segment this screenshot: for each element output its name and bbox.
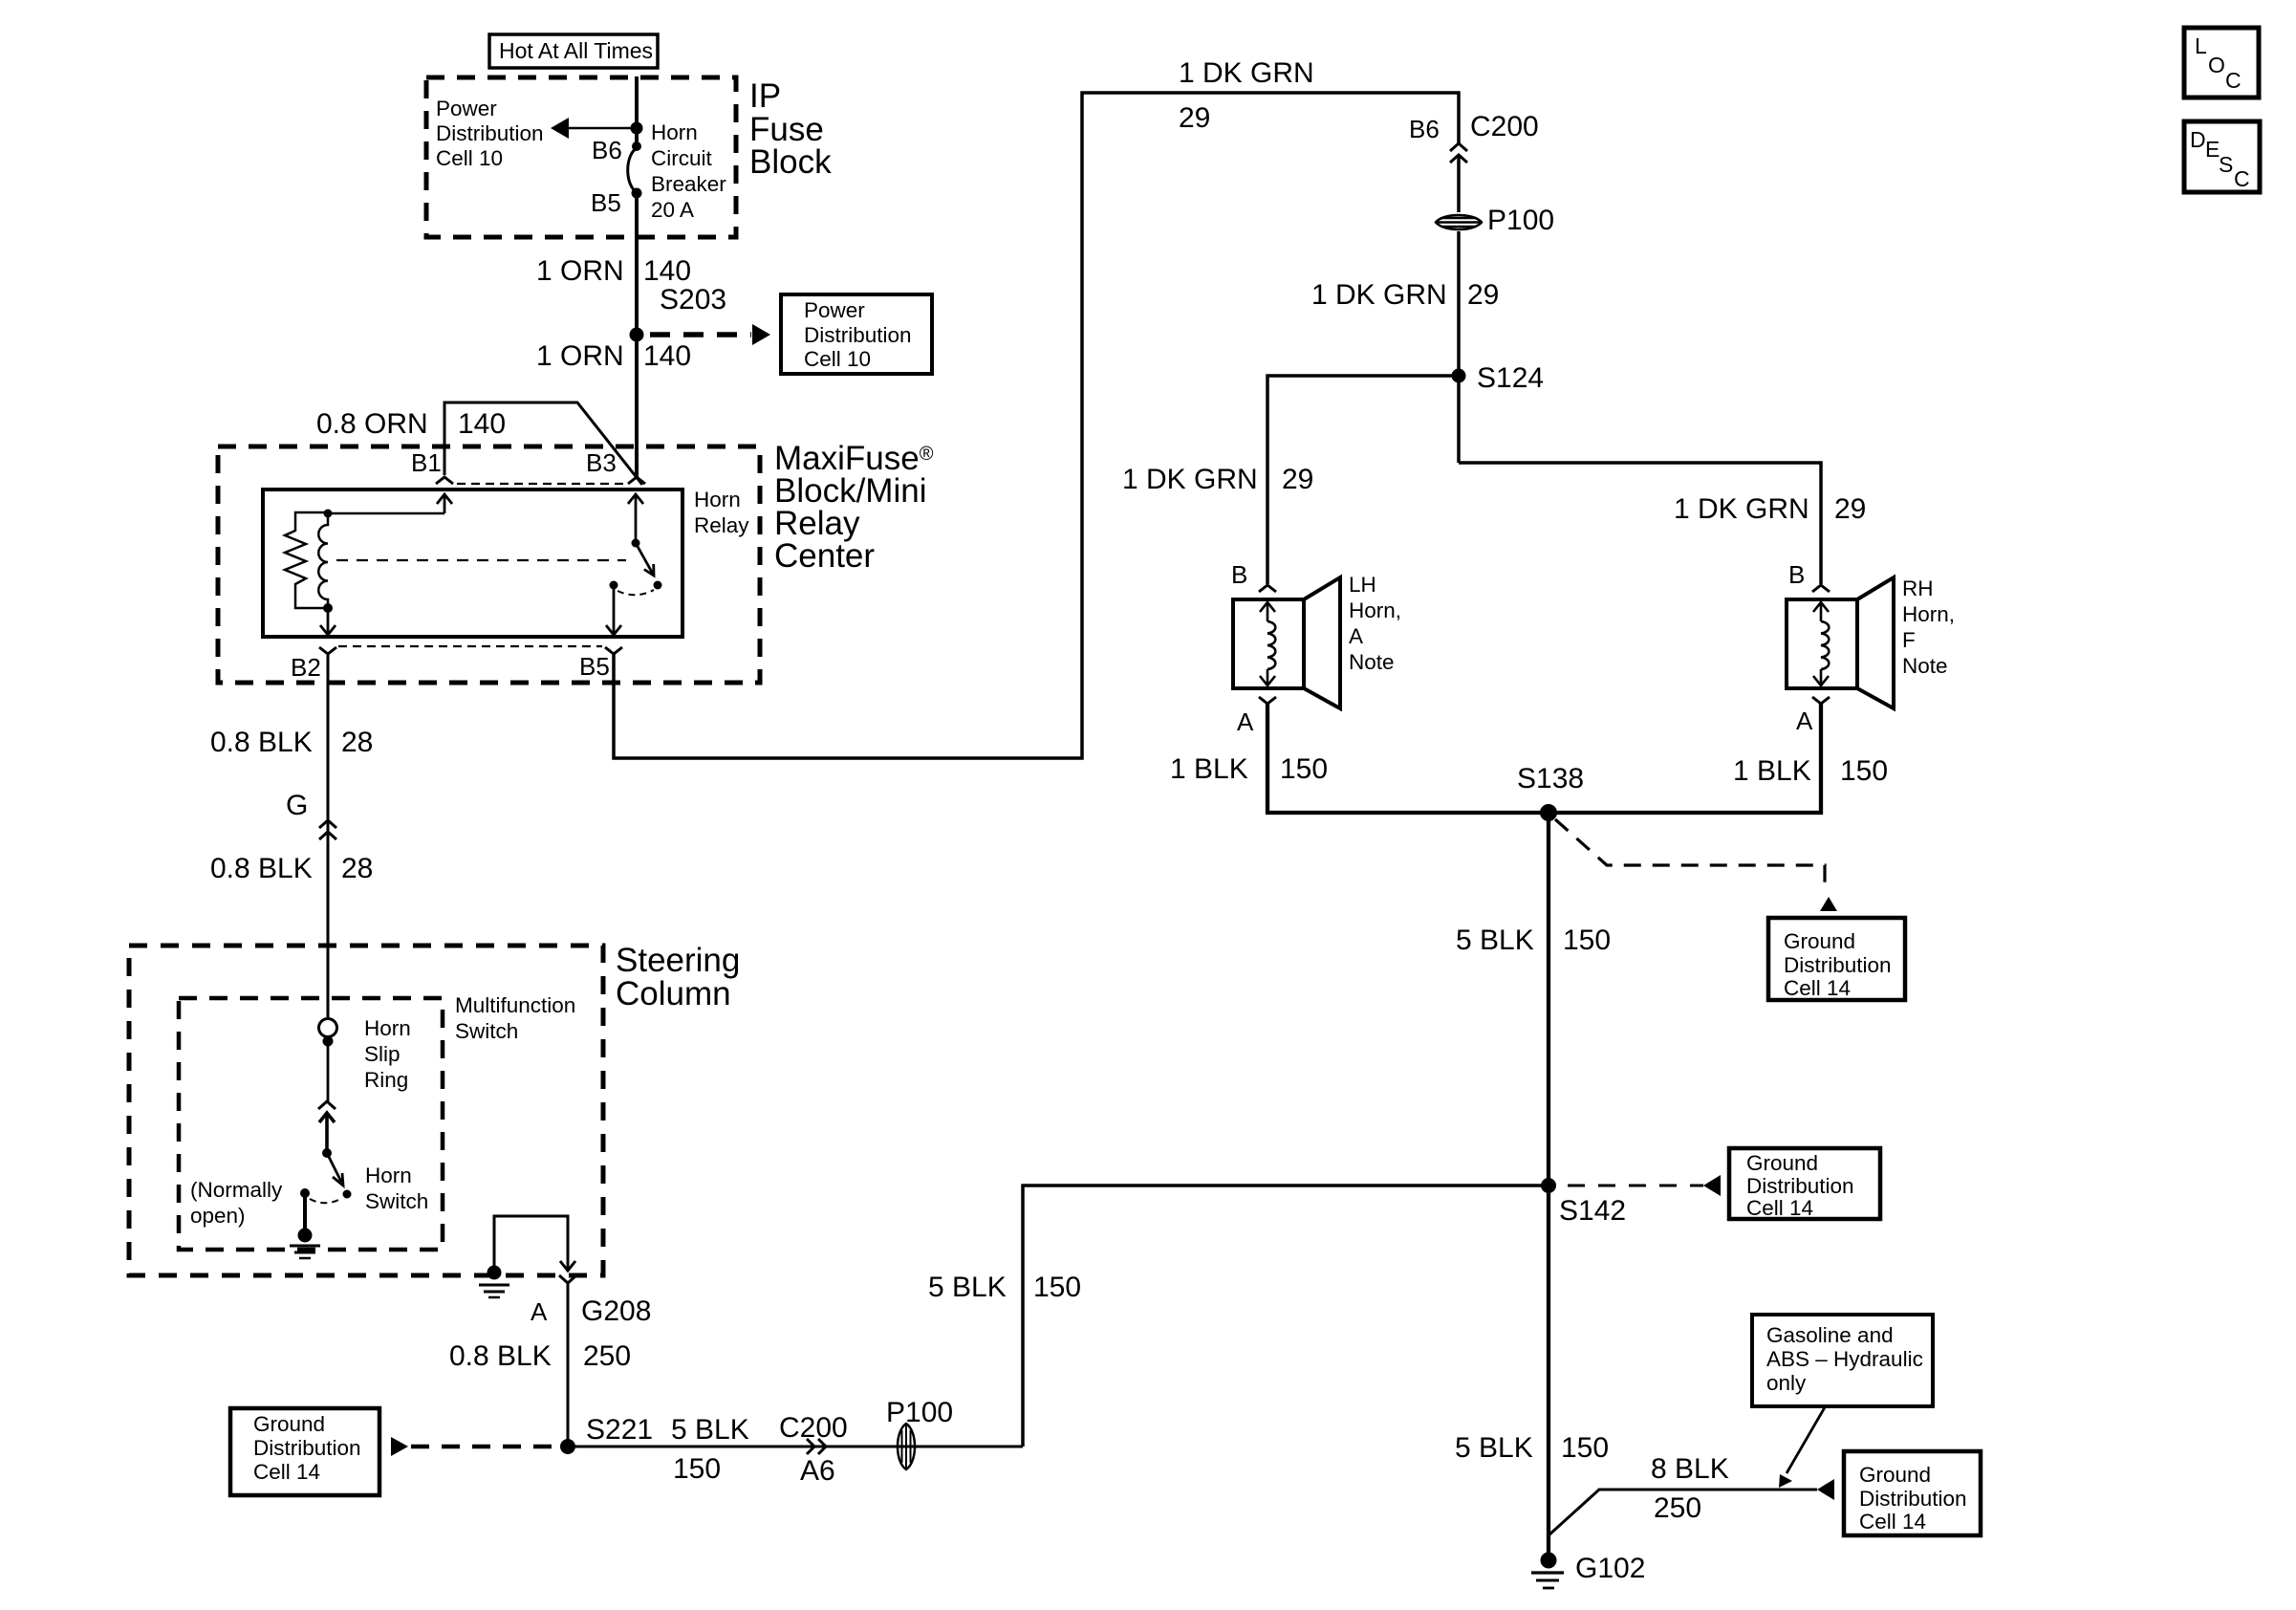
Horn Circuit Breaker 20 A label [651, 120, 726, 222]
svg-text:Cell 14: Cell 14 [1859, 1510, 1926, 1534]
svg-text:B3: B3 [586, 448, 617, 477]
wire label 8 BLK 250 [1651, 1453, 1729, 1524]
svg-text:Distribution: Distribution [1784, 953, 1892, 977]
svg-text:150: 150 [673, 1453, 721, 1485]
svg-text:Note: Note [1902, 654, 1948, 678]
relay switch pivot [632, 539, 640, 548]
horn switch blade with arrowhead [327, 1153, 343, 1186]
node: coil bottom junction [323, 603, 333, 613]
wire: arrow to Power Distribution Cell 10 [551, 118, 637, 139]
svg-text:Ground: Ground [1784, 929, 1855, 953]
svg-text:250: 250 [583, 1340, 631, 1372]
in-line chevron below slip ring [318, 1101, 336, 1109]
wire: P100 to S124 [1457, 231, 1461, 463]
svg-text:8 BLK: 8 BLK [1651, 1453, 1729, 1485]
wire: up to S142 horizontal [1023, 1186, 1549, 1447]
wire: dashed reference from S142 to Ground Distribution [1568, 1175, 1721, 1196]
circuit breaker: Horn Circuit Breaker 20A [628, 141, 642, 199]
svg-text:(Normally: (Normally [190, 1178, 283, 1202]
DESC legend box [2184, 121, 2260, 192]
Ground Distribution Cell 14 box (S142) [1729, 1148, 1880, 1220]
Ground Distribution Cell 14 box (S138) [1768, 918, 1905, 1000]
wire: case ground jumper to G208 with arrow [494, 1216, 575, 1271]
svg-text:Ring: Ring [364, 1068, 408, 1092]
svg-text:Cell 14: Cell 14 [253, 1460, 320, 1484]
wire: S142 down to G102 [1547, 1186, 1550, 1558]
wire: S138 down to S142 [1547, 813, 1550, 1186]
Power Distribution Cell 10 box [781, 294, 932, 374]
Multifunction Switch label [455, 993, 575, 1043]
wire label 1 ORN 140 (below S203) [536, 340, 691, 372]
relay pin B1 internal arrow [437, 494, 452, 513]
relay pin B3 internal arrow [628, 494, 643, 543]
wire: S221 right to C200 [568, 1446, 1023, 1448]
svg-text:ABS – Hydraulic: ABS – Hydraulic [1766, 1347, 1923, 1371]
node S142 [1541, 1178, 1556, 1193]
svg-text:0.8 BLK: 0.8 BLK [210, 853, 313, 884]
svg-text:Power: Power [804, 298, 865, 322]
svg-text:IP: IP [749, 77, 781, 115]
svg-text:Cell 14: Cell 14 [1784, 976, 1851, 1000]
wire: breaker output down to S203 and B3 [635, 193, 639, 477]
svg-text:B: B [1231, 560, 1247, 589]
IP Fuse Block dashed box [426, 77, 736, 237]
svg-text:C: C [2225, 68, 2242, 93]
svg-text:Horn,: Horn, [1902, 602, 1955, 626]
wire label 1 BLK 150 (LH) [1170, 753, 1328, 785]
horn switch blade arrow up [319, 1113, 335, 1153]
wire: B5 feed to horns (B5 down, right, up, top horizontal) [614, 93, 1459, 758]
svg-text:1 DK GRN: 1 DK GRN [1311, 279, 1447, 311]
RH Horn F Note label [1902, 577, 1955, 678]
RH horn terminal B chevron [1812, 585, 1830, 592]
terminal B3 chevron [628, 477, 645, 484]
relay switch contact (NO) [654, 581, 662, 590]
horn switch contact (right) [343, 1190, 352, 1199]
svg-text:B5: B5 [579, 652, 610, 681]
svg-text:B6: B6 [1409, 115, 1440, 143]
svg-text:Block: Block [749, 143, 832, 181]
svg-text:G102: G102 [1575, 1553, 1645, 1584]
svg-text:S221: S221 [586, 1414, 653, 1446]
svg-text:S203: S203 [660, 284, 726, 315]
LH horn, A Note [1233, 577, 1340, 708]
wire label 0.8 BLK 250 [449, 1340, 631, 1372]
svg-text:1 BLK: 1 BLK [1733, 755, 1811, 787]
wire: C200 to P100 [1457, 155, 1461, 212]
wire: LH horn A to S138 [1267, 704, 1545, 813]
in-line connector C200 chevrons (top) [1450, 143, 1467, 163]
ground G102 [1531, 1553, 1564, 1589]
svg-text:29: 29 [1834, 493, 1866, 525]
svg-text:Distribution: Distribution [804, 323, 912, 347]
relay switch contact to B5 [610, 581, 618, 590]
svg-text:Horn: Horn [694, 488, 741, 511]
wire: relay coil top lead [328, 512, 444, 515]
svg-text:B6: B6 [592, 136, 622, 164]
svg-text:Gasoline and: Gasoline and [1766, 1323, 1894, 1347]
RH horn terminal A chevron [1812, 697, 1830, 704]
node S124 [1452, 369, 1466, 383]
svg-text:Hot At All Times: Hot At All Times [499, 38, 653, 63]
terminal B2 chevron [319, 647, 336, 654]
svg-text:5 BLK: 5 BLK [928, 1272, 1007, 1303]
wire label 1 DK GRN 29 (top) [1179, 57, 1314, 134]
svg-text:29: 29 [1282, 464, 1313, 495]
svg-text:Breaker: Breaker [651, 172, 726, 196]
in-line connector G chevrons [319, 820, 336, 839]
svg-text:140: 140 [643, 255, 691, 287]
svg-text:Horn: Horn [364, 1016, 411, 1040]
svg-text:Circuit: Circuit [651, 146, 713, 170]
wire label 0.8 BLK 28 (upper) [210, 727, 373, 758]
node: coil top junction [324, 510, 333, 518]
wire label 1 ORN 140 (above S203) [536, 255, 691, 287]
relay switch travel dashed arc [617, 590, 654, 595]
svg-text:Cell 10: Cell 10 [804, 347, 871, 371]
svg-text:Steering: Steering [616, 942, 740, 979]
svg-text:Distribution: Distribution [1859, 1487, 1967, 1511]
svg-text:Horn: Horn [365, 1164, 412, 1187]
svg-text:Horn,: Horn, [1349, 598, 1401, 622]
svg-text:28: 28 [341, 727, 373, 758]
svg-text:28: 28 [341, 853, 373, 884]
svg-text:0.8 ORN: 0.8 ORN [316, 408, 428, 440]
svg-text:B5: B5 [591, 188, 621, 217]
svg-text:B1: B1 [411, 448, 442, 477]
svg-text:G208: G208 [581, 1295, 651, 1327]
wire: dashed reference from S221 to Ground Distribution [391, 1437, 554, 1456]
LH Horn A Note label [1349, 573, 1401, 674]
svg-text:B: B [1788, 560, 1805, 589]
node: junction to power distribution [631, 122, 643, 135]
node S138 [1540, 804, 1557, 821]
svg-text:150: 150 [1563, 925, 1611, 956]
wire: dashed reference from S203 to Power Distribution [650, 324, 770, 345]
svg-text:Center: Center [774, 537, 875, 575]
LOC legend box [2184, 28, 2259, 98]
svg-text:Cell 10: Cell 10 [436, 146, 503, 170]
RH horn, F Note [1787, 577, 1894, 708]
svg-text:150: 150 [1840, 755, 1888, 787]
node S221 [560, 1439, 575, 1454]
Steering Column dashed box [129, 946, 603, 1275]
svg-text:Ground: Ground [1859, 1463, 1931, 1487]
wire: B2 down to horn slip ring [327, 654, 330, 1019]
Gasoline and ABS-Hydraulic only box [1752, 1315, 1933, 1406]
terminal B1 chevron [436, 477, 453, 484]
Horn Slip Ring label [364, 1016, 411, 1092]
(Normally open) label [190, 1178, 283, 1228]
svg-text:S: S [2219, 152, 2233, 177]
Horn Relay box [263, 490, 682, 637]
svg-text:140: 140 [643, 340, 691, 372]
svg-text:250: 250 [1654, 1492, 1701, 1524]
svg-text:B2: B2 [291, 653, 321, 682]
svg-text:Horn: Horn [651, 120, 698, 144]
svg-text:Distribution: Distribution [1746, 1174, 1854, 1198]
svg-text:L: L [2195, 33, 2207, 58]
wire label 5 BLK 150 (lower trunk) [1455, 1432, 1609, 1464]
svg-text:LH: LH [1349, 573, 1376, 597]
bulkhead connector P100 (bottom) [898, 1424, 915, 1469]
bulkhead connector P100 (top) [1436, 215, 1482, 229]
wire label 1 BLK 150 (RH) [1733, 755, 1888, 787]
LH horn terminal B chevron [1259, 585, 1276, 592]
svg-text:29: 29 [1467, 279, 1499, 311]
svg-text:5 BLK: 5 BLK [1456, 925, 1534, 956]
Horn Switch label [365, 1164, 428, 1213]
relay coil (inductor) [318, 517, 328, 604]
svg-text:open): open) [190, 1204, 246, 1228]
wire: S124 branch to RH horn [1459, 463, 1821, 584]
svg-text:O: O [2208, 53, 2225, 77]
horn switch pivot [322, 1148, 332, 1158]
horn slip ring symbol [319, 1019, 337, 1102]
svg-text:Slip: Slip [364, 1042, 401, 1066]
wire: circuit 140 flag polyline from B1 to B3 [444, 402, 642, 485]
svg-text:Note: Note [1349, 650, 1395, 674]
wire label 5 BLK 150 (riser) [928, 1272, 1081, 1303]
svg-text:A: A [1349, 624, 1363, 648]
svg-text:1 ORN: 1 ORN [536, 340, 624, 372]
ground: steering column case ground G208 [479, 1266, 509, 1298]
wire label 1 DK GRN 29 (RH branch) [1674, 493, 1866, 525]
wire: S124 branch to LH horn [1267, 376, 1459, 584]
svg-text:F: F [1902, 628, 1916, 652]
svg-text:S124: S124 [1477, 362, 1544, 394]
svg-text:140: 140 [458, 408, 506, 440]
horn switch travel dashed arc [310, 1198, 342, 1203]
svg-text:150: 150 [1033, 1272, 1081, 1303]
MaxiFuse Block/Mini Relay Center dashed box [218, 446, 760, 683]
horn switch contact (left) [300, 1188, 310, 1198]
svg-text:1 DK GRN: 1 DK GRN [1179, 57, 1314, 89]
Power Distribution Cell 10 reference text [436, 97, 544, 170]
terminal A chevron at G208 [559, 1275, 576, 1440]
svg-text:20 A: 20 A [651, 198, 694, 222]
svg-text:Distribution: Distribution [253, 1436, 361, 1460]
svg-text:Switch: Switch [365, 1189, 428, 1213]
svg-text:Ground: Ground [1746, 1151, 1818, 1175]
wire: hot feed into breaker [635, 76, 639, 146]
svg-text:1 ORN: 1 ORN [536, 255, 624, 287]
svg-text:Multifunction: Multifunction [455, 993, 575, 1017]
svg-text:D: D [2190, 127, 2206, 152]
svg-text:RH: RH [1902, 577, 1934, 600]
svg-text:Switch: Switch [455, 1019, 518, 1043]
relay switch blade with arrowhead [636, 543, 654, 576]
wire: dashed reference from S138 to Ground Distribution [1555, 819, 1837, 911]
svg-text:1 DK GRN: 1 DK GRN [1674, 493, 1809, 525]
svg-text:150: 150 [1280, 753, 1328, 785]
svg-text:Relay: Relay [694, 513, 749, 537]
terminal B5 chevron [605, 647, 622, 654]
svg-text:A: A [531, 1297, 548, 1326]
MaxiFuse Block/Mini Relay Center label [774, 440, 934, 575]
wire label 1 DK GRN 29 (LH branch) [1122, 464, 1313, 495]
wire: RH horn A to S138 [1552, 704, 1821, 813]
wire label 1 DK GRN 29 (middle) [1311, 279, 1499, 311]
connector face dashed line B1-B3 [457, 483, 625, 485]
wire: callout arrow from Gasoline box to 8 BLK wire [1779, 1407, 1825, 1488]
svg-text:A: A [1796, 707, 1813, 735]
Hot At All Times box [489, 34, 658, 68]
svg-text:Column: Column [616, 975, 731, 1012]
Ground Distribution Cell 14 box (G102) [1844, 1451, 1981, 1535]
connector face dashed line B2-B5 [338, 645, 602, 647]
svg-text:A: A [1237, 707, 1254, 736]
svg-text:Ground: Ground [253, 1412, 325, 1436]
svg-text:C200: C200 [779, 1412, 848, 1444]
relay pin B2 internal arrow [320, 608, 336, 635]
svg-text:C: C [2234, 166, 2250, 191]
svg-text:C200: C200 [1470, 111, 1539, 142]
svg-text:P100: P100 [1487, 205, 1554, 236]
svg-text:Cell 14: Cell 14 [1746, 1196, 1813, 1220]
svg-text:29: 29 [1179, 102, 1210, 134]
svg-text:5 BLK: 5 BLK [1455, 1432, 1533, 1464]
resistor (relay suppression) [285, 512, 328, 608]
wire label 0.8 BLK 28 (lower) [210, 853, 373, 884]
relay mechanical link dashed line [336, 559, 626, 561]
svg-text:5 BLK: 5 BLK [671, 1414, 749, 1446]
wire: G102 branch 8 BLK to Ground Distribution [1549, 1479, 1834, 1535]
svg-text:Distribution: Distribution [436, 121, 544, 145]
svg-text:150: 150 [1561, 1432, 1609, 1464]
svg-text:S142: S142 [1559, 1195, 1626, 1227]
svg-text:1 DK GRN: 1 DK GRN [1122, 464, 1258, 495]
svg-text:Power: Power [436, 97, 497, 120]
Ground Distribution Cell 14 box (S221) [230, 1408, 379, 1495]
svg-text:A6: A6 [800, 1455, 835, 1487]
wire label 5 BLK 150 (upper trunk) [1456, 925, 1611, 956]
svg-text:only: only [1766, 1371, 1807, 1395]
Horn Relay label [694, 488, 749, 537]
svg-text:G: G [286, 790, 308, 821]
svg-text:0.8 BLK: 0.8 BLK [210, 727, 313, 758]
ground: horn switch ground [290, 1197, 320, 1258]
relay pin B5 internal arrow [606, 589, 621, 635]
svg-text:0.8 BLK: 0.8 BLK [449, 1340, 552, 1372]
Multifunction Switch dashed box [179, 998, 443, 1250]
svg-text:S138: S138 [1517, 763, 1584, 794]
in-line connector C200 chevrons (bottom) [807, 1439, 826, 1454]
svg-text:1 BLK: 1 BLK [1170, 753, 1248, 785]
LH horn terminal A chevron [1259, 697, 1276, 704]
node S203 [630, 328, 644, 342]
svg-text:P100: P100 [886, 1397, 953, 1428]
wire label 5 BLK 150 (S221) [671, 1414, 749, 1485]
Steering Column label [616, 942, 740, 1012]
